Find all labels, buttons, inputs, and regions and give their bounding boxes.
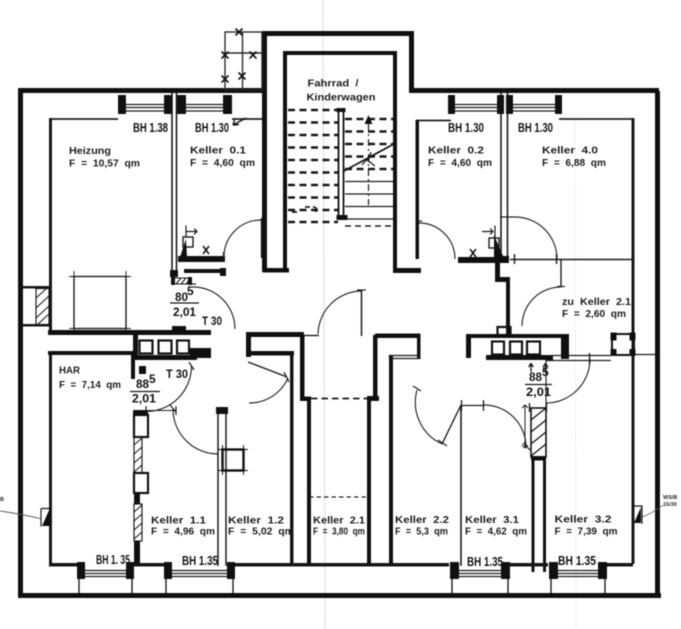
svg-text:Fahrrad /: Fahrrad /	[308, 79, 359, 90]
outer wall right	[655, 91, 660, 598]
svg-text:5: 5	[187, 284, 194, 298]
svg-text:88: 88	[529, 370, 542, 384]
zu Keller door arc	[522, 287, 561, 326]
svg-text:F = 4,96 qm: F = 4,96 qm	[151, 527, 215, 538]
Keller 0.2 door x-mark and arrow	[470, 249, 476, 257]
svg-text:B: B	[0, 497, 4, 503]
dim line hatch column	[522, 405, 528, 448]
Keller 0.2 door black wedge	[494, 235, 504, 258]
stair treads right flight lower (solid)	[345, 182, 393, 220]
bay side lines to outer wall	[79, 579, 605, 593]
svg-text:Keller 2.1: Keller 2.1	[313, 516, 365, 527]
section zigzag marks	[362, 152, 375, 166]
stair treads right flight upper (dashed)	[345, 119, 393, 169]
HAR north wall	[48, 351, 133, 355]
svg-text:F = 2,60 qm: F = 2,60 qm	[562, 309, 626, 320]
stair east wall bottom cap	[393, 268, 421, 273]
svg-text:Kinderwagen: Kinderwagen	[307, 93, 376, 104]
vestibule east wall	[373, 335, 378, 399]
slot cap left	[300, 397, 311, 402]
zu-Keller west wall	[506, 282, 510, 334]
svg-text:BH 1. 35: BH 1. 35	[96, 552, 130, 567]
divider Keller 2.2 / 3.1	[460, 406, 462, 566]
svg-text:2,01: 2,01	[526, 385, 551, 399]
divider Heizung / Keller 0.1	[172, 93, 177, 276]
stair room east wall	[393, 51, 397, 272]
HAR door arc	[146, 366, 192, 412]
window W1 Heizung BH1.38	[124, 105, 166, 112]
stair treads left flight (dashed)	[288, 110, 338, 222]
Keller 2.2 north wall	[375, 334, 421, 339]
window W4 Keller 4.0 BH1.30	[511, 105, 557, 112]
stair up-arrow line	[365, 115, 373, 205]
window W2 Keller 0.1 BH1.30	[184, 105, 225, 112]
Keller 0.1 door x-mark and arrow	[203, 246, 209, 254]
east inner wall (right side, full)	[632, 118, 635, 564]
svg-text:Keller 3.2: Keller 3.2	[555, 515, 613, 526]
bottom inner wall segments	[49, 563, 633, 567]
vestibule door wall stub	[304, 335, 319, 337]
svg-text:BH 1.38: BH 1.38	[133, 120, 168, 135]
x-marks on entry stair	[222, 29, 257, 83]
dashed line Keller 2.1 mid	[309, 496, 369, 498]
svg-text:Keller 2.2: Keller 2.2	[395, 515, 449, 526]
outer wall bottom	[18, 593, 661, 598]
outside entry stair top-left of block	[225, 32, 262, 90]
svg-text:F = 7,14 qm: F = 7,14 qm	[59, 380, 121, 391]
meter boxes left	[133, 335, 211, 360]
Keller 0.2 west wall	[416, 120, 420, 259]
bottom window lines W6	[172, 571, 227, 577]
svg-text:WS/B: WS/B	[663, 495, 677, 501]
svg-text:5: 5	[149, 372, 156, 386]
Keller 1.1 north wall	[133, 410, 148, 414]
HAR east wall segments	[131, 355, 135, 379]
Keller 0.1 bottom wall	[178, 256, 225, 262]
Keller 2.1 west wall	[307, 399, 311, 566]
thin double wall right of meter	[553, 355, 611, 357]
stair west wall bottom cap	[263, 268, 289, 273]
Keller 1.2 door leaf + arc	[248, 362, 287, 377]
outer wall top-left section	[18, 88, 266, 93]
Keller 0.2 bottom wall	[458, 257, 500, 263]
scan crease	[323, 0, 325, 629]
divider Keller 0.2 / Keller 4.0	[501, 93, 508, 262]
hatch column Keller 3.1/3.2	[530, 403, 547, 461]
landing hook dashes	[292, 207, 316, 214]
slot cap right	[367, 396, 379, 401]
chimney square Heizung	[69, 271, 131, 333]
outer wall top-right section	[410, 88, 659, 93]
svg-text:F = 6,88 qm: F = 6,88 qm	[542, 158, 606, 169]
svg-text:zu Keller 2.1: zu Keller 2.1	[562, 297, 631, 308]
svg-text:2,01: 2,01	[132, 392, 156, 406]
Keller 2.2 NW hollow wall band	[417, 334, 421, 359]
bottom window lines W5	[85, 571, 126, 577]
bottom window lines W8	[558, 571, 598, 577]
dashed lintel Keller 2.1 top	[311, 398, 367, 400]
svg-text:Keller 1.1: Keller 1.1	[151, 516, 206, 527]
Keller 2.2 door leaf	[442, 405, 461, 444]
Keller 3.1 door arc	[484, 405, 526, 447]
Keller 0.2 door arc	[419, 223, 455, 259]
hallway south wall center	[246, 332, 304, 337]
left wall niche hatch	[36, 289, 49, 325]
Keller 0.2 wall step	[495, 263, 510, 282]
Keller 0.1 door arc	[224, 220, 261, 257]
window W3 Keller 0.2 BH1.30	[453, 105, 499, 112]
HAR west inner wall	[49, 351, 52, 565]
Heizung west inner wall	[49, 118, 52, 332]
Keller 0.1 second bar	[184, 269, 224, 273]
svg-text:BH 1.35: BH 1.35	[467, 554, 503, 569]
vestibule door leaf	[361, 290, 363, 336]
svg-text:F = 5,3 qm: F = 5,3 qm	[395, 527, 448, 538]
HAR window black wedge	[42, 508, 50, 526]
divider Keller 3.1 / 3.2 double wall	[533, 460, 545, 572]
svg-text:15/30: 15/30	[663, 502, 677, 508]
window niche posts top	[118, 95, 562, 114]
stair center rail	[337, 108, 348, 220]
Keller 2.2 west wall	[389, 355, 393, 566]
Heizung south wall with meter bar	[48, 330, 211, 335]
Keller 4.0 door leaf line	[500, 216, 515, 218]
svg-text:F = 4,60 qm: F = 4,60 qm	[190, 158, 255, 169]
shaft box Keller 1.2	[223, 450, 244, 471]
stair bottom dashed tread	[345, 225, 393, 227]
left wall blocked niche caps	[23, 286, 49, 289]
svg-text:F = 3,80 qm: F = 3,80 qm	[313, 527, 365, 538]
zu Keller stub wall	[560, 259, 562, 287]
svg-text:F = 4,62 qm: F = 4,62 qm	[465, 527, 527, 538]
stair room top wall	[283, 51, 397, 55]
svg-text:BH 1.30: BH 1.30	[448, 120, 484, 135]
Keller 2.2/3.1 jamb line	[461, 405, 484, 407]
stair section diagonal	[344, 145, 392, 171]
divider Keller 1.1 / 1.2	[218, 411, 226, 566]
svg-text:BH 1.30: BH 1.30	[518, 120, 553, 135]
vestibule west wall	[300, 335, 305, 399]
Keller 1.2 north wall	[246, 351, 294, 356]
Keller 4.0 door arc	[515, 217, 557, 259]
pillar block SE of Keller 4.0	[611, 333, 636, 357]
svg-text:F = 5,02 qm: F = 5,02 qm	[228, 527, 294, 538]
Keller 1.1 door arc	[173, 409, 218, 454]
svg-text:BH 1.35: BH 1.35	[182, 553, 218, 568]
bottom window lines W7	[459, 571, 501, 577]
HAR wedge leader line	[0, 511, 42, 519]
svg-text:BH 1.30: BH 1.30	[195, 120, 229, 135]
inner-face line of top wall	[50, 119, 634, 121]
Keller 2.2 door arc	[415, 390, 442, 444]
stairwell block outer wall	[262, 31, 414, 93]
svg-text:F = 4,60 qm: F = 4,60 qm	[428, 158, 492, 169]
svg-text:Keller 1.2: Keller 1.2	[228, 516, 285, 527]
svg-text:T 30: T 30	[202, 314, 222, 328]
svg-text:Keller 0.1: Keller 0.1	[190, 146, 247, 157]
zu Keller north thin wall	[510, 259, 634, 261]
Keller 0.1 east wall / corridor wall	[262, 93, 267, 272]
svg-text:T 30: T 30	[166, 367, 188, 381]
meter boxes right	[466, 327, 569, 360]
svg-text:BH 1.35: BH 1.35	[558, 553, 596, 568]
stair room west wall	[283, 51, 287, 272]
svg-text:Keller 4.0: Keller 4.0	[542, 146, 599, 157]
Keller 3.2 door vertical + arc	[545, 359, 547, 407]
right wall window black wedge	[634, 507, 641, 523]
T30 door arc upper	[193, 287, 235, 329]
Keller 1.2 east wall	[290, 354, 294, 566]
Keller 2.1 east wall	[367, 399, 371, 566]
svg-text:2,01: 2,01	[173, 305, 196, 319]
svg-text:Keller 0.2: Keller 0.2	[428, 146, 485, 157]
svg-text:HAR: HAR	[59, 366, 81, 377]
bottom bay jamb posts	[77, 562, 607, 579]
Keller 0.1 door black wedge	[180, 239, 187, 257]
svg-text:88: 88	[136, 377, 149, 391]
dim arrow at W2 post	[233, 118, 246, 125]
svg-text:F = 10,57 qm: F = 10,57 qm	[69, 159, 140, 170]
outer wall left	[18, 88, 23, 598]
hatched door sill left corridor	[171, 277, 192, 285]
svg-text:Keller 3.1: Keller 3.1	[465, 515, 519, 526]
WS/B leader + text	[642, 505, 663, 517]
HAR door jamb line + ticks	[146, 410, 176, 412]
svg-text:Heizung: Heizung	[69, 146, 111, 157]
vestibule door arc	[318, 291, 361, 334]
svg-text:F = 7,39 qm: F = 7,39 qm	[555, 527, 618, 538]
dim arrows right door	[529, 364, 549, 373]
